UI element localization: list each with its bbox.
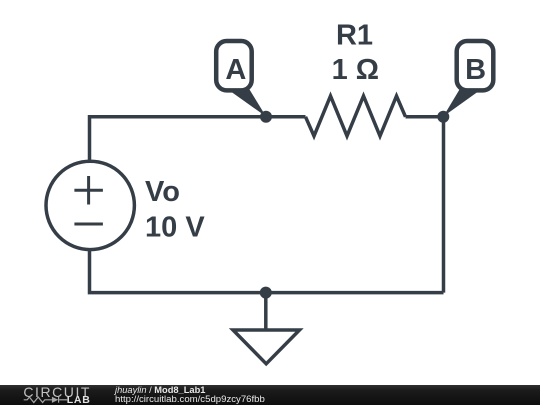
- footer attribution text line 1: [115, 385, 205, 395]
- voltage source minus sign: [74, 223, 103, 226]
- resistor R1 zigzag body: [306, 96, 406, 136]
- ground symbol triangle: [233, 330, 300, 364]
- svg-text:Vo: Vo: [145, 176, 180, 208]
- footer attribution text line 2: [115, 394, 265, 405]
- node A tag rounded box: [216, 41, 252, 90]
- node B tag rounded box: [457, 41, 494, 90]
- svg-text:LAB: LAB: [67, 394, 91, 405]
- svg-text:1 Ω: 1 Ω: [332, 54, 379, 86]
- svg-text:10 V: 10 V: [145, 211, 205, 243]
- ground stem wire: [264, 293, 268, 330]
- svg-text:A: A: [225, 54, 246, 86]
- node A pointer wedge: [232, 90, 267, 117]
- wire: top-left from source top up and across to node A: [90, 117, 306, 162]
- node B pointer wedge: [443, 90, 477, 117]
- voltage source V1 circle: [46, 161, 134, 249]
- junction dot at node B: [437, 111, 449, 123]
- CircuitLab logo: [0, 384, 100, 405]
- wire: resistor right lead to node B and down right side: [406, 117, 444, 293]
- wire: source bottom down, across bottom to right side: [90, 249, 444, 293]
- junction dot at ground node: [260, 287, 272, 299]
- svg-text:R1: R1: [336, 20, 373, 52]
- junction dot at node A: [260, 111, 272, 123]
- svg-text:B: B: [465, 54, 486, 86]
- footer attribution bar: [0, 385, 540, 405]
- voltage source plus sign: [74, 176, 103, 205]
